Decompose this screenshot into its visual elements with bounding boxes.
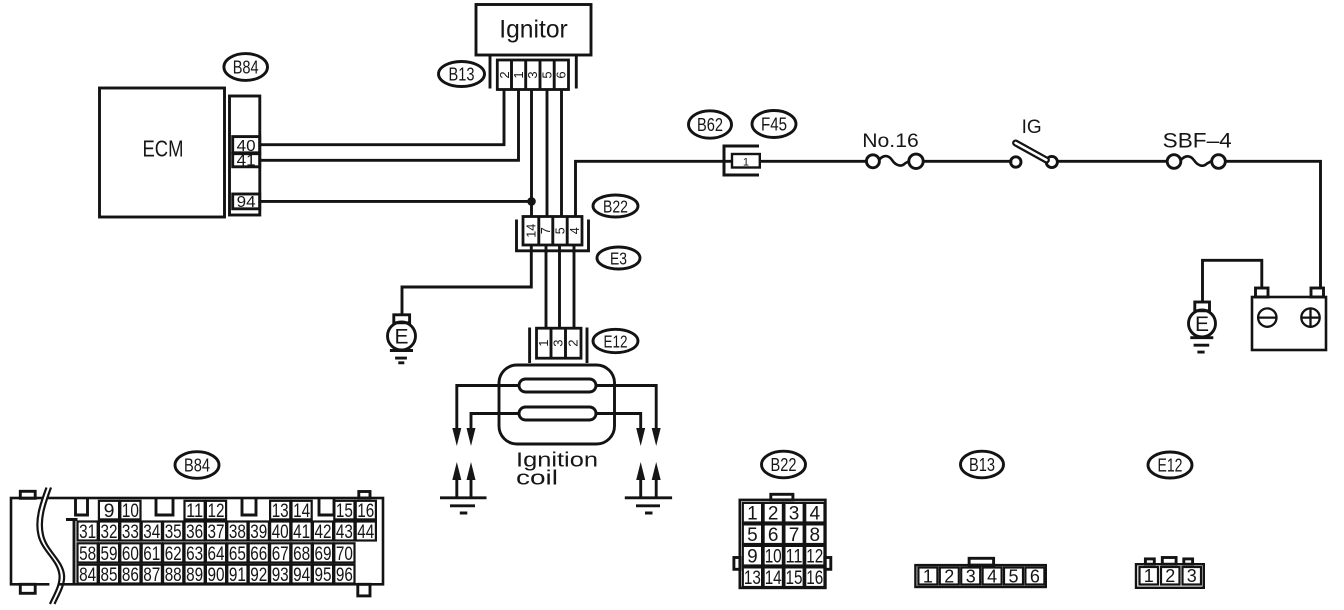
svg-text:B62: B62 bbox=[697, 114, 723, 135]
B84 pin 64 bbox=[206, 543, 226, 565]
svg-text:3: 3 bbox=[1187, 566, 1197, 586]
B84 pin 42 bbox=[313, 521, 333, 543]
ECM box bbox=[100, 88, 225, 217]
connector B62/F45 bracket bbox=[724, 146, 759, 175]
svg-text:5: 5 bbox=[747, 525, 758, 546]
svg-text:2: 2 bbox=[497, 71, 512, 78]
svg-text:87: 87 bbox=[143, 564, 160, 586]
svg-text:63: 63 bbox=[186, 543, 203, 565]
B84 pin 13 bbox=[270, 500, 290, 522]
svg-text:2: 2 bbox=[1165, 566, 1175, 586]
B84 pin 44 bbox=[356, 521, 376, 543]
B22 pin 5 bbox=[743, 524, 762, 546]
label E3 bbox=[597, 247, 640, 269]
B84 pin 16 bbox=[356, 500, 376, 522]
svg-text:3: 3 bbox=[966, 566, 976, 586]
label B13 bottom bbox=[961, 451, 1004, 478]
B22 pin 9 bbox=[743, 546, 762, 568]
label B84 bottom bbox=[175, 452, 219, 479]
label E12 bottom bbox=[1148, 452, 1192, 478]
svg-text:No.16: No.16 bbox=[862, 130, 919, 152]
label B22 bbox=[593, 195, 638, 217]
connector E12 strip (pins 1,3,2) bbox=[536, 328, 581, 358]
B22 pin 11 bbox=[784, 546, 803, 568]
Ignitor box bbox=[476, 5, 591, 56]
connector E12 body (bottom view) bbox=[1136, 558, 1204, 588]
B84 pin 38 bbox=[227, 521, 247, 543]
B84 pin 66 bbox=[249, 543, 269, 565]
svg-text:9: 9 bbox=[104, 500, 115, 522]
svg-text:67: 67 bbox=[272, 543, 289, 565]
svg-text:11: 11 bbox=[786, 547, 803, 568]
label B84 bbox=[224, 54, 268, 81]
label B13 bbox=[439, 62, 485, 87]
svg-text:66: 66 bbox=[250, 543, 267, 565]
svg-text:16: 16 bbox=[357, 500, 374, 522]
svg-text:84: 84 bbox=[79, 564, 96, 586]
B22 pin 6 bbox=[764, 524, 783, 546]
svg-text:94: 94 bbox=[293, 564, 310, 586]
connector B13 strip (pins 2,1,3,5,6) bbox=[497, 60, 569, 90]
B84 pin 31 bbox=[78, 521, 98, 543]
svg-text:90: 90 bbox=[208, 564, 225, 586]
B84 pin 86 bbox=[120, 564, 140, 586]
svg-text:38: 38 bbox=[229, 521, 246, 543]
fuse SBF-4 bbox=[1163, 130, 1232, 169]
svg-text:1: 1 bbox=[1144, 566, 1154, 586]
svg-text:32: 32 bbox=[101, 521, 118, 543]
svg-text:16: 16 bbox=[806, 568, 823, 589]
wire B22 pin14 to ground E bbox=[402, 245, 531, 315]
svg-text:E12: E12 bbox=[604, 331, 628, 351]
B84 pin 35 bbox=[163, 521, 183, 543]
svg-text:69: 69 bbox=[315, 543, 332, 565]
B84 pin 92 bbox=[249, 564, 269, 586]
pin 40 bbox=[233, 137, 260, 155]
B84 pin 33 bbox=[120, 521, 140, 543]
B84 pin 12 bbox=[206, 500, 226, 522]
svg-text:10: 10 bbox=[765, 547, 782, 568]
svg-text:61: 61 bbox=[143, 543, 160, 565]
svg-text:E12: E12 bbox=[1158, 455, 1183, 476]
svg-text:37: 37 bbox=[208, 521, 225, 543]
svg-text:88: 88 bbox=[165, 564, 182, 586]
label B62 bbox=[689, 111, 732, 138]
svg-text:ECM: ECM bbox=[143, 136, 184, 162]
connector B84 body (bottom view) bbox=[11, 491, 383, 596]
svg-text:1: 1 bbox=[536, 340, 551, 347]
svg-text:59: 59 bbox=[101, 543, 118, 565]
E12 pin 2 bbox=[1161, 566, 1180, 586]
B84 pin 69 bbox=[313, 543, 333, 565]
ignition coil winding 1 bbox=[519, 379, 596, 392]
B22 pin 2 bbox=[764, 503, 783, 525]
B84 pin 61 bbox=[142, 543, 162, 565]
B13 pin 1 bbox=[918, 566, 937, 586]
svg-text:2: 2 bbox=[768, 504, 779, 525]
svg-text:42: 42 bbox=[315, 521, 332, 543]
svg-text:60: 60 bbox=[122, 543, 139, 565]
svg-text:8: 8 bbox=[810, 525, 821, 546]
svg-text:85: 85 bbox=[101, 564, 118, 586]
B84 pin 65 bbox=[227, 543, 247, 565]
label E12 bbox=[593, 329, 638, 352]
B84 pin 85 bbox=[99, 564, 119, 586]
svg-text:6: 6 bbox=[554, 71, 569, 78]
svg-text:91: 91 bbox=[229, 564, 246, 586]
svg-text:B22: B22 bbox=[603, 196, 628, 216]
ground symbol left spark plugs bbox=[440, 498, 487, 513]
B84 pin 39 bbox=[249, 521, 269, 543]
wire B22 pin4 to connector B62 bbox=[576, 161, 733, 216]
ground symbol left E bbox=[390, 351, 413, 363]
svg-text:92: 92 bbox=[250, 564, 267, 586]
svg-text:B13: B13 bbox=[969, 454, 995, 475]
svg-text:68: 68 bbox=[293, 543, 310, 565]
connector B22 body (bottom view) bbox=[734, 494, 831, 588]
connector B84 break squiggle bbox=[37, 488, 64, 605]
wire switch IG to fuse SBF-4 bbox=[1058, 160, 1167, 163]
svg-text:6: 6 bbox=[1030, 566, 1040, 586]
wire B13 pin6 to B22 pin5 bbox=[560, 90, 563, 217]
B84 pin 36 bbox=[185, 521, 205, 543]
wire coil1 right output with arrow bbox=[596, 386, 661, 447]
svg-text:1: 1 bbox=[743, 157, 749, 169]
svg-text:coil: coil bbox=[516, 468, 558, 490]
svg-text:62: 62 bbox=[165, 543, 182, 565]
svg-text:2: 2 bbox=[566, 340, 581, 347]
fuse No.16 bbox=[862, 130, 923, 169]
svg-text:39: 39 bbox=[250, 521, 267, 543]
svg-text:89: 89 bbox=[186, 564, 203, 586]
svg-text:36: 36 bbox=[186, 521, 203, 543]
svg-text:1: 1 bbox=[923, 566, 933, 586]
B84 pin 63 bbox=[185, 543, 205, 565]
svg-text:5: 5 bbox=[1008, 566, 1018, 586]
B84 pin 11 bbox=[185, 500, 205, 522]
B84 pin 93 bbox=[270, 564, 290, 586]
svg-text:SBF–4: SBF–4 bbox=[1163, 130, 1232, 153]
B84 pin 59 bbox=[99, 543, 119, 565]
B22 pin 14 bbox=[764, 567, 783, 589]
svg-text:14: 14 bbox=[524, 224, 538, 238]
B84 pin 67 bbox=[270, 543, 290, 565]
B22 pin 10 bbox=[764, 546, 783, 568]
wire coil2 right output with arrow bbox=[596, 414, 645, 447]
label B22 bottom bbox=[762, 451, 806, 478]
svg-text:B22: B22 bbox=[771, 454, 797, 475]
junction dot bbox=[527, 197, 536, 206]
B22 pin 1 bbox=[743, 503, 762, 525]
svg-text:35: 35 bbox=[165, 521, 182, 543]
svg-text:Ignitor: Ignitor bbox=[499, 16, 568, 44]
B84 pin 9 bbox=[99, 500, 119, 522]
B84 pin 58 bbox=[78, 543, 98, 565]
spark plug up arrows left bbox=[452, 462, 475, 498]
B22 pin 4 bbox=[805, 503, 824, 525]
svg-text:3: 3 bbox=[551, 340, 566, 347]
B13 pin 4 bbox=[983, 566, 1002, 586]
B22 pin 3 bbox=[784, 503, 803, 525]
svg-text:93: 93 bbox=[272, 564, 289, 586]
ground symbol right spark plugs bbox=[625, 498, 672, 513]
connector B84 top notches bbox=[76, 498, 335, 515]
B84 pin 60 bbox=[120, 543, 140, 565]
svg-text:41: 41 bbox=[293, 521, 310, 543]
ground E terminal left bbox=[388, 315, 416, 350]
svg-text:F45: F45 bbox=[761, 114, 787, 135]
switch IG bbox=[1011, 117, 1058, 168]
svg-text:15: 15 bbox=[786, 568, 803, 589]
B84 pin 37 bbox=[206, 521, 226, 543]
B84 pin 15 bbox=[334, 500, 354, 522]
wire fuse No.16 to switch IG bbox=[923, 160, 1013, 163]
svg-text:43: 43 bbox=[336, 521, 353, 543]
svg-text:4: 4 bbox=[568, 227, 582, 234]
svg-text:44: 44 bbox=[357, 521, 374, 543]
svg-text:9: 9 bbox=[747, 547, 758, 568]
ignition coil winding 2 bbox=[519, 407, 596, 420]
B84 pin 94 bbox=[292, 564, 312, 586]
Ignitor legs bbox=[490, 55, 576, 89]
ignition coil body bbox=[499, 365, 615, 444]
svg-text:B84: B84 bbox=[233, 57, 259, 78]
wire B22 pin7 to E12 pin1 bbox=[545, 245, 548, 329]
wire B13 pin5 to B22 pin7 bbox=[546, 90, 549, 217]
svg-text:7: 7 bbox=[539, 227, 553, 234]
B13 pin 5 bbox=[1004, 566, 1023, 586]
svg-text:4: 4 bbox=[987, 566, 997, 586]
pin 94 bbox=[233, 194, 260, 211]
svg-text:11: 11 bbox=[186, 500, 203, 522]
connector B13 body (bottom view) bbox=[915, 558, 1045, 587]
svg-text:15: 15 bbox=[336, 500, 353, 522]
B84 pin 10 bbox=[120, 500, 140, 522]
connector B22 strip (pins 14,7,5,4) bbox=[523, 217, 582, 246]
svg-text:E: E bbox=[1195, 313, 1209, 336]
E12 pin 3 bbox=[1183, 566, 1202, 586]
B22 pin 15 bbox=[784, 567, 803, 589]
wire ECM pin94 to junction bbox=[260, 200, 532, 203]
svg-text:IG: IG bbox=[1022, 117, 1042, 138]
wire B22 pin5 to E12 pin3 bbox=[558, 245, 561, 329]
svg-text:1: 1 bbox=[747, 504, 758, 525]
svg-text:5: 5 bbox=[553, 227, 567, 234]
wire B22 pin4 to E12 pin2 bbox=[573, 245, 576, 329]
B22 pin 12 bbox=[805, 546, 824, 568]
svg-text:94: 94 bbox=[237, 194, 256, 211]
svg-text:86: 86 bbox=[122, 564, 139, 586]
B84 pin 68 bbox=[292, 543, 312, 565]
svg-text:13: 13 bbox=[272, 500, 289, 522]
svg-text:4: 4 bbox=[810, 504, 821, 525]
svg-text:41: 41 bbox=[237, 152, 256, 169]
connector B62/F45 pin 1 box bbox=[732, 154, 760, 169]
svg-text:5: 5 bbox=[539, 71, 554, 78]
wire coil1 left output with arrow bbox=[452, 386, 519, 447]
B84 pin 14 bbox=[292, 500, 312, 522]
B13 pin 3 bbox=[961, 566, 980, 586]
svg-text:65: 65 bbox=[229, 543, 246, 565]
svg-text:B13: B13 bbox=[449, 64, 475, 85]
B84 pin 43 bbox=[334, 521, 354, 543]
B13 pin 6 bbox=[1025, 566, 1044, 586]
svg-text:95: 95 bbox=[315, 564, 332, 586]
B22 pin 8 bbox=[805, 524, 824, 546]
svg-text:12: 12 bbox=[208, 500, 225, 522]
battery bbox=[1252, 288, 1326, 350]
B22 pin 13 bbox=[743, 567, 762, 589]
svg-text:14: 14 bbox=[765, 568, 782, 589]
B84 pin 95 bbox=[313, 564, 333, 586]
svg-text:96: 96 bbox=[336, 564, 353, 586]
B84 pin 40 bbox=[270, 521, 290, 543]
B84 pin 70 bbox=[334, 543, 354, 565]
B84 pin 88 bbox=[163, 564, 183, 586]
svg-text:3: 3 bbox=[789, 504, 800, 525]
spark plug up arrows right bbox=[636, 462, 661, 498]
svg-text:E3: E3 bbox=[610, 248, 627, 268]
svg-text:1: 1 bbox=[511, 71, 526, 78]
B84 pin 87 bbox=[142, 564, 162, 586]
svg-text:33: 33 bbox=[122, 521, 139, 543]
E12 pin 1 bbox=[1140, 566, 1159, 586]
ground E terminal right bbox=[1189, 302, 1216, 337]
connector E3 bracket bbox=[517, 220, 589, 251]
svg-text:34: 34 bbox=[143, 521, 160, 543]
label F45 bbox=[752, 111, 796, 138]
wire B62 to fuse No.16 bbox=[760, 160, 867, 163]
svg-text:12: 12 bbox=[806, 547, 823, 568]
B22 pin 16 bbox=[805, 567, 824, 589]
svg-text:B84: B84 bbox=[184, 455, 210, 476]
ground symbol right E bbox=[1190, 338, 1213, 352]
svg-text:13: 13 bbox=[744, 568, 761, 589]
B84 pin 34 bbox=[142, 521, 162, 543]
svg-text:3: 3 bbox=[525, 71, 540, 78]
wire battery to ground E right bbox=[1203, 260, 1262, 302]
B84 pin 41 bbox=[292, 521, 312, 543]
wire B13 pin3 to B22 pin14 bbox=[530, 90, 533, 217]
wire ECM pin40 to B13 pin2 bbox=[260, 90, 504, 145]
svg-text:10: 10 bbox=[122, 500, 139, 522]
pin 41 bbox=[233, 152, 260, 169]
svg-text:70: 70 bbox=[336, 543, 353, 565]
B84 pin 91 bbox=[227, 564, 247, 586]
B84 pin 89 bbox=[185, 564, 205, 586]
connector E12 side walls bbox=[530, 328, 587, 364]
B13 pin 2 bbox=[940, 566, 959, 586]
B84 pin 84 bbox=[78, 564, 98, 586]
svg-text:31: 31 bbox=[79, 521, 96, 543]
B84 pin 32 bbox=[99, 521, 119, 543]
connector B84 strip on ECM bbox=[230, 96, 260, 215]
svg-text:14: 14 bbox=[293, 500, 310, 522]
svg-text:2: 2 bbox=[944, 566, 954, 586]
B84 pin 96 bbox=[334, 564, 354, 586]
svg-text:64: 64 bbox=[208, 543, 225, 565]
svg-text:6: 6 bbox=[768, 525, 779, 546]
wire ECM pin41 to B13 pin1 bbox=[260, 90, 519, 161]
B84 pin 62 bbox=[163, 543, 183, 565]
ignition coil caption bbox=[516, 450, 598, 490]
B84 pin 90 bbox=[206, 564, 226, 586]
svg-text:58: 58 bbox=[79, 543, 96, 565]
wire coil2 left output with arrow bbox=[467, 414, 520, 447]
wire fuse SBF-4 to battery bbox=[1225, 161, 1320, 288]
B22 pin 7 bbox=[784, 524, 803, 546]
svg-text:7: 7 bbox=[789, 525, 800, 546]
svg-text:40: 40 bbox=[272, 521, 289, 543]
svg-text:E: E bbox=[394, 326, 408, 349]
